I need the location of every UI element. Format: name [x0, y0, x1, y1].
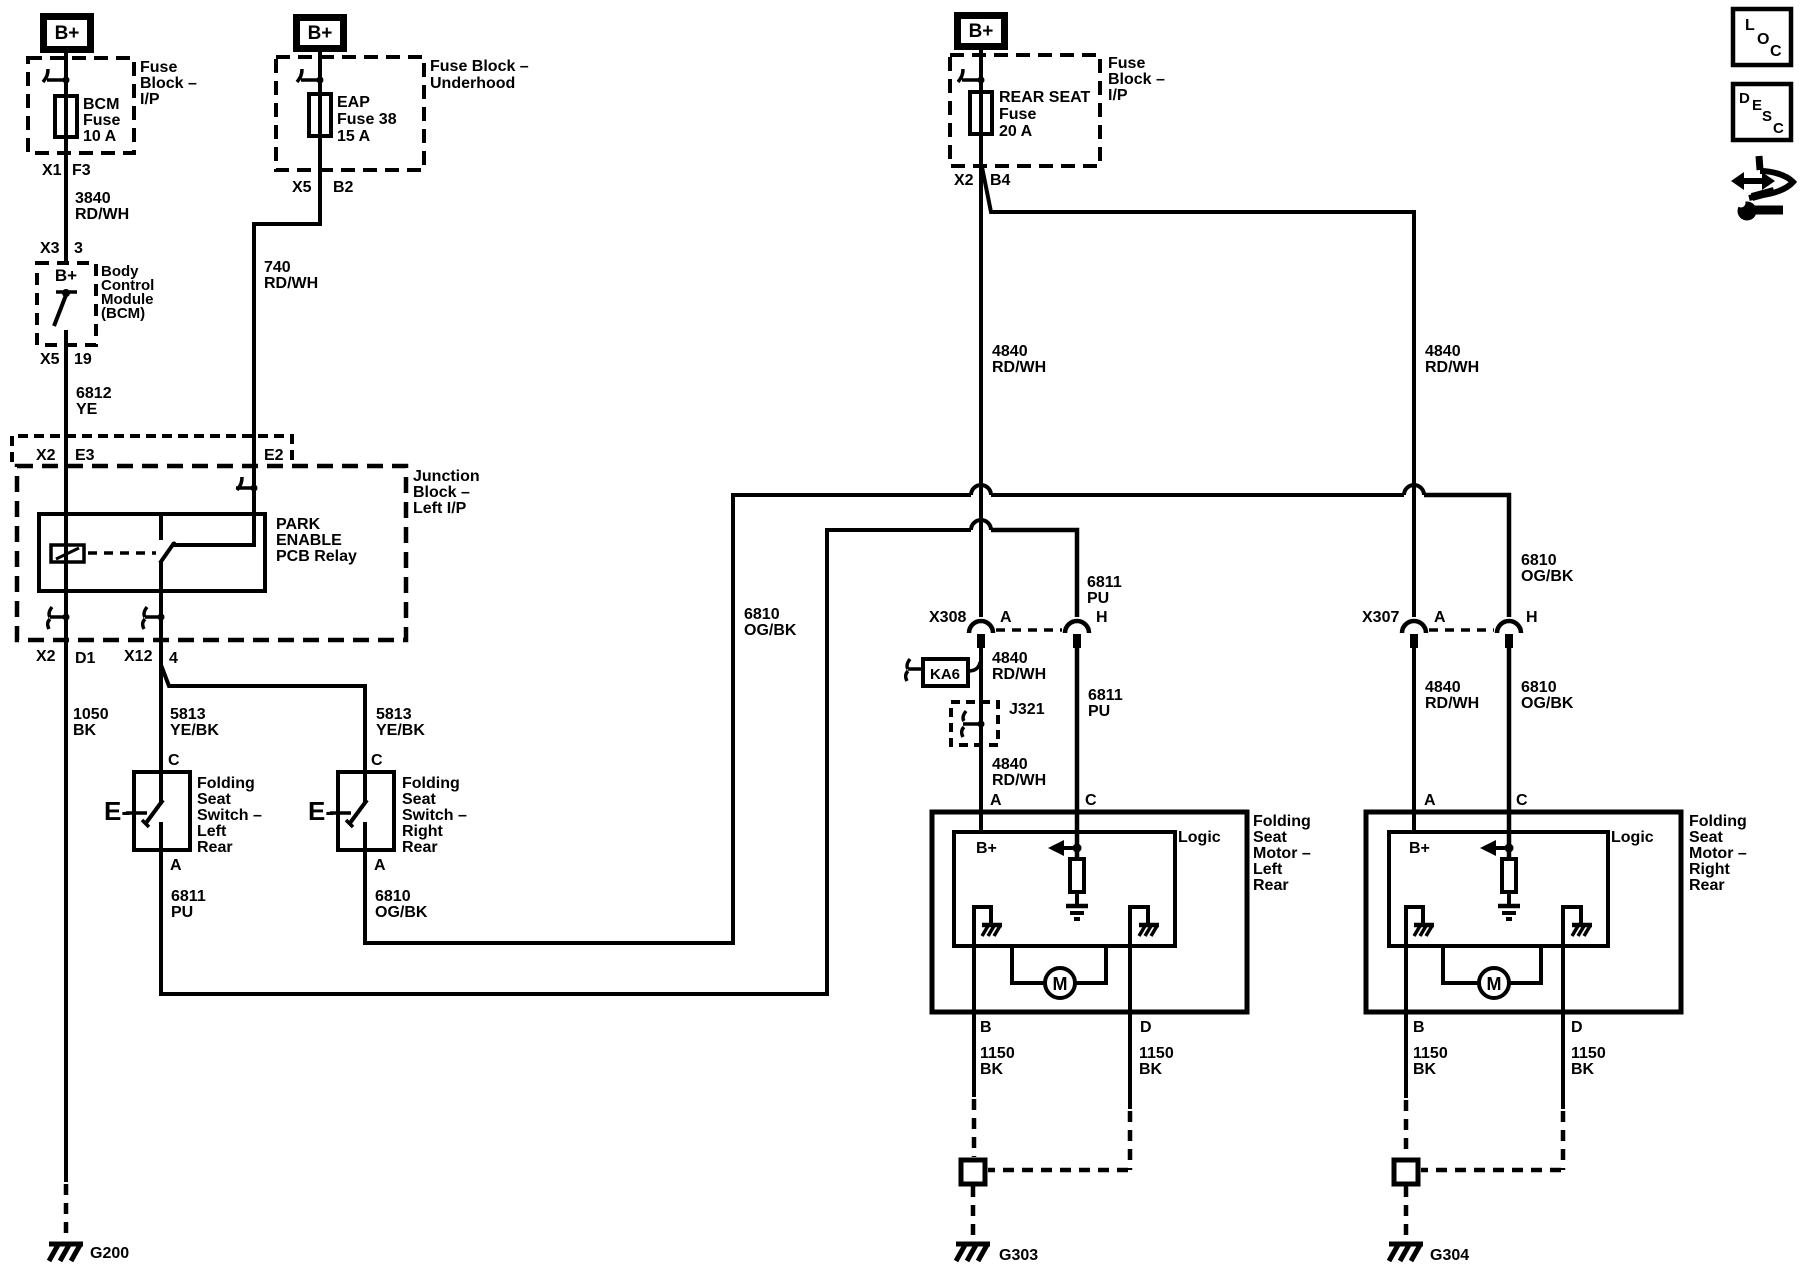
folding seat switch right rear blade [338, 800, 367, 827]
svg-text:Fuse Block –: Fuse Block – [430, 58, 529, 75]
resistor (right logic) [1502, 859, 1516, 892]
wire 6812 YE / 1050 BK from BCM down to G200 [64, 330, 68, 1182]
svg-text:I/P: I/P [1108, 87, 1128, 104]
svg-text:EAP: EAP [337, 94, 370, 111]
ground G303 [956, 1244, 990, 1261]
pin label X5 B2 [292, 179, 354, 196]
fuse EAP Fuse 38 15A [309, 94, 331, 136]
label Fuse Block - Underhood [430, 58, 529, 92]
svg-text:6810: 6810 [744, 606, 780, 623]
svg-text:L: L [1745, 17, 1755, 34]
svg-text:Rear: Rear [1689, 877, 1725, 894]
svg-text:G304: G304 [1430, 1247, 1469, 1264]
svg-text:5813: 5813 [376, 706, 412, 723]
svg-text:X1: X1 [42, 162, 62, 179]
svg-text:X5: X5 [292, 179, 312, 196]
dashed link coil to relay contact [88, 551, 156, 555]
svg-text:Seat: Seat [402, 791, 436, 808]
svg-text:Block –: Block – [1108, 71, 1165, 88]
svg-text:6810: 6810 [375, 888, 411, 905]
labels X308 A H [929, 609, 1108, 626]
svg-text:X307: X307 [1362, 609, 1399, 626]
svg-text:1150: 1150 [1413, 1045, 1448, 1062]
svg-text:C: C [1770, 43, 1782, 60]
wire 4840 RD/WH branch to right seat motor [982, 167, 1414, 617]
fuse REAR SEAT Fuse 20A [970, 92, 992, 134]
svg-text:S: S [1762, 108, 1772, 125]
pin labels X2 D1 X12 4 [36, 648, 178, 667]
splice (left motors ground) [961, 1160, 985, 1184]
svg-text:X2: X2 [36, 447, 56, 464]
ground G200 [49, 1244, 83, 1261]
dashed ground wire right motor B to splice [1404, 1100, 1409, 1157]
label PARK ENABLE PCB Relay [276, 516, 357, 565]
svg-text:6811: 6811 [1088, 687, 1123, 704]
wire resistor to signal ground (left logic) [1075, 892, 1079, 904]
connector clip on relay output wire at junction block bottom [143, 607, 165, 629]
connector clip at rear seat fuse block input [958, 69, 985, 84]
svg-text:6812: 6812 [76, 385, 112, 402]
signal ground (left logic) [1066, 906, 1088, 919]
fusible link KA6 [906, 659, 980, 686]
wire label 1150 BK (right motor D) [1571, 1045, 1606, 1078]
svg-text:(BCM): (BCM) [101, 305, 145, 322]
wire 4840 RD/WH below X307 to right motor A [1412, 646, 1416, 832]
svg-text:H: H [1096, 609, 1108, 626]
wire label 6810 OG/BK (above right motor C) [1521, 679, 1574, 712]
svg-text:X2: X2 [954, 172, 974, 189]
wire 5813 YE/BK branch to right folding seat switch [161, 665, 365, 802]
svg-text:Right: Right [1689, 861, 1731, 878]
wire label 6811 PU (above X308 H) [1087, 574, 1122, 607]
fuse block I/P dashed box [28, 58, 134, 153]
svg-text:Rear: Rear [197, 839, 233, 856]
svg-text:BK: BK [73, 722, 97, 739]
svg-text:BK: BK [1139, 1061, 1163, 1078]
dashed ground wire left motor D to splice [988, 1111, 1130, 1170]
connector X308 terminal A [969, 621, 993, 648]
svg-text:4840: 4840 [1425, 679, 1461, 696]
svg-text:19: 19 [74, 351, 92, 368]
svg-text:F3: F3 [72, 162, 91, 179]
svg-text:M: M [1487, 974, 1502, 994]
svg-text:4840: 4840 [992, 756, 1028, 773]
svg-text:Folding: Folding [402, 775, 460, 792]
wire 6810 OG/BK below X307 to right motor C [1507, 646, 1512, 859]
svg-text:740: 740 [264, 259, 291, 276]
folding seat switch right rear box [338, 772, 394, 850]
svg-text:6810: 6810 [1521, 552, 1557, 569]
wire left motor D internal with chassis ground [1130, 907, 1159, 1109]
connector clip inside J321 [962, 711, 985, 737]
svg-text:M: M [1053, 974, 1068, 994]
svg-text:Folding: Folding [1689, 813, 1747, 830]
svg-text:X12: X12 [124, 648, 153, 665]
svg-text:OG/BK: OG/BK [1521, 568, 1574, 585]
svg-text:B+: B+ [1409, 840, 1430, 857]
svg-text:Seat: Seat [1253, 829, 1287, 846]
svg-text:Block –: Block – [140, 75, 197, 92]
svg-text:Block –: Block – [413, 484, 470, 501]
pin label X3 3 [40, 240, 83, 257]
svg-text:B+: B+ [55, 266, 77, 285]
terminal labels B D (left motor) [980, 1019, 1152, 1036]
svg-text:G200: G200 [90, 1245, 129, 1262]
svg-text:4840: 4840 [1425, 343, 1461, 360]
wire label 6811 PU (below left switch) [171, 888, 206, 921]
svg-text:Rear: Rear [1253, 877, 1289, 894]
terminal labels A C (left motor) [990, 792, 1097, 809]
svg-text:D: D [1140, 1019, 1152, 1036]
svg-text:Left: Left [1253, 861, 1283, 878]
svg-text:3: 3 [74, 240, 83, 257]
svg-text:15 A: 15 A [337, 128, 371, 145]
svg-text:PU: PU [1088, 703, 1110, 720]
svg-text:1150: 1150 [980, 1045, 1015, 1062]
DESC reference icon [1733, 84, 1791, 140]
svg-text:RD/WH: RD/WH [992, 666, 1046, 683]
logic box (left motor) [954, 832, 1175, 946]
label Folding Seat Motor - Right Rear [1689, 813, 1747, 894]
svg-text:A: A [990, 792, 1002, 809]
wire right motor B internal with chassis ground [1406, 907, 1434, 1098]
wire 6810 OG/BK from right switch to X307 H with hops [365, 485, 1509, 943]
svg-text:B+: B+ [308, 23, 333, 44]
wire label 1150 BK (left motor B) [980, 1045, 1015, 1078]
label BCM Fuse 10 A [83, 96, 120, 145]
wire label 5813 YE/BK (right) [376, 706, 425, 739]
svg-text:RD/WH: RD/WH [264, 275, 318, 292]
svg-text:A: A [170, 857, 182, 874]
fuse block I/P dashed box (rear seat fuse) [950, 55, 1100, 166]
svg-text:E3: E3 [75, 447, 95, 464]
svg-text:20 A: 20 A [999, 123, 1033, 140]
svg-text:Fuse: Fuse [1108, 55, 1145, 72]
svg-text:4: 4 [169, 650, 178, 667]
labels X307 A H [1362, 609, 1538, 626]
connector clip at fuse block underhood input [297, 69, 324, 84]
wire 740 RD/WH from EAP fuse to relay contact [173, 52, 320, 545]
dashed ground wire right motor D to splice [1421, 1111, 1563, 1170]
wire 3840 RD/WH from B+ through BCM Fuse to BCM [64, 53, 68, 265]
svg-text:BK: BK [1571, 1061, 1595, 1078]
svg-text:C: C [1085, 792, 1097, 809]
label Folding Seat Switch - Left Rear [197, 775, 262, 856]
svg-text:D1: D1 [75, 650, 96, 667]
logic box (right motor) [1389, 832, 1608, 946]
svg-text:RD/WH: RD/WH [1425, 695, 1479, 712]
svg-text:D: D [1739, 90, 1750, 107]
svg-text:RD/WH: RD/WH [75, 206, 129, 223]
svg-text:RD/WH: RD/WH [992, 359, 1046, 376]
motor M left rear [1012, 946, 1106, 998]
junction dot and arrow (right logic) [1480, 840, 1514, 856]
label REAR SEAT Fuse 20 A [999, 89, 1090, 140]
wire label 3840 RD/WH [75, 190, 129, 223]
pin labels X2 E3 E2 [36, 447, 284, 464]
folding seat switch left rear box [134, 772, 190, 850]
battery feed B+ (EAP fuse, underhood) [293, 14, 347, 52]
svg-text:OG/BK: OG/BK [1521, 695, 1574, 712]
wire label 740 RD/WH [264, 259, 318, 292]
svg-text:Left: Left [197, 823, 227, 840]
svg-text:1150: 1150 [1571, 1045, 1606, 1062]
svg-text:Right: Right [402, 823, 444, 840]
svg-text:Folding: Folding [197, 775, 255, 792]
svg-text:B+: B+ [976, 840, 997, 857]
svg-text:4840: 4840 [992, 650, 1028, 667]
svg-text:1150: 1150 [1139, 1045, 1174, 1062]
ground G304 [1389, 1244, 1423, 1261]
motor M right rear [1443, 946, 1541, 998]
wire 6811 PU from left switch to X308 H with hop [161, 520, 1077, 994]
dashed link E- to right switch [330, 811, 336, 815]
wire label 4840 RD/WH (right drop) [1425, 343, 1479, 376]
svg-text:E2: E2 [264, 447, 284, 464]
connector clip on 1050 BK wire at junction block bottom [48, 607, 70, 629]
svg-text:B4: B4 [990, 172, 1011, 189]
fuse BCM Fuse 10A [55, 96, 77, 137]
svg-text:A: A [374, 857, 386, 874]
wire label 1150 BK (right motor B) [1413, 1045, 1448, 1078]
label Folding Seat Switch - Right Rear [402, 775, 467, 856]
connector X307 terminal A [1402, 621, 1426, 648]
svg-text:E-: E- [308, 796, 334, 826]
wire label 4840 RD/WH (left drop) [992, 343, 1046, 376]
svg-text:B: B [1413, 1019, 1425, 1036]
junction dot and arrow (left logic) [1048, 840, 1082, 856]
svg-text:O: O [1757, 31, 1769, 48]
svg-text:3840: 3840 [75, 190, 111, 207]
svg-text:I/P: I/P [140, 91, 160, 108]
svg-text:C: C [168, 752, 180, 769]
junction block left I/P dashed box [17, 466, 406, 640]
svg-text:A: A [1424, 792, 1436, 809]
svg-text:Left I/P: Left I/P [413, 500, 467, 517]
battery feed B+ (left, BCM fuse) [40, 13, 94, 53]
label Folding Seat Motor - Left Rear [1253, 813, 1311, 894]
wire label 4840 RD/WH (above right motor A) [1425, 679, 1479, 712]
svg-text:KA6: KA6 [930, 666, 960, 683]
dashed wire splice to G304 [1404, 1186, 1409, 1242]
svg-text:PCB Relay: PCB Relay [276, 548, 357, 565]
folding seat switch left rear blade [134, 800, 163, 827]
wire 6811 PU below X308 to left motor C [1075, 646, 1080, 859]
wire 4840 RD/WH below X308 to left motor A [979, 646, 983, 832]
wire label 4840 RD/WH (above left motor A) [992, 756, 1046, 789]
svg-text:PU: PU [1087, 590, 1109, 607]
svg-text:B: B [980, 1019, 992, 1036]
svg-text:Fuse: Fuse [140, 59, 177, 76]
pin label X1 F3 [42, 162, 91, 179]
wire label 6811 PU (above left motor C) [1088, 687, 1123, 720]
connector clip on E2 wire inside junction block [236, 477, 258, 492]
svg-text:4840: 4840 [992, 343, 1028, 360]
wire label 5813 YE/BK (left) [170, 706, 219, 739]
wire resistor to signal ground (right logic) [1507, 892, 1511, 904]
svg-text:E-: E- [104, 796, 130, 826]
wire label 6810 OG/BK (riser) [744, 606, 797, 639]
svg-text:Seat: Seat [197, 791, 231, 808]
terminal labels B D (right motor) [1413, 1019, 1583, 1036]
svg-text:A: A [1434, 609, 1446, 626]
folding seat motor left rear box [932, 812, 1247, 1012]
svg-text:Fuse 38: Fuse 38 [337, 111, 397, 128]
label Junction Block - Left I/P [413, 468, 480, 517]
wire from relay blade down to X12 pin 4 and switches [159, 561, 163, 803]
dashed link X307 A-H [1429, 628, 1494, 632]
svg-text:1050: 1050 [73, 706, 109, 723]
wire left motor B internal with chassis ground [974, 907, 1002, 1097]
svg-text:Underhood: Underhood [430, 75, 515, 92]
svg-text:OG/BK: OG/BK [744, 622, 797, 639]
svg-text:Switch –: Switch – [402, 807, 467, 824]
svg-text:OG/BK: OG/BK [375, 904, 428, 921]
splice (right motors ground) [1394, 1160, 1418, 1184]
svg-text:H: H [1526, 609, 1538, 626]
wire label 1050 BK [73, 706, 109, 739]
label Body Control Module (BCM) [101, 263, 154, 322]
svg-text:RD/WH: RD/WH [992, 772, 1046, 789]
svg-text:PARK: PARK [276, 516, 321, 533]
svg-text:6811: 6811 [171, 888, 206, 905]
svg-text:ENABLE: ENABLE [276, 532, 342, 549]
svg-text:Fuse: Fuse [999, 106, 1036, 123]
svg-text:YE/BK: YE/BK [376, 722, 425, 739]
svg-text:X5: X5 [40, 351, 60, 368]
svg-text:J321: J321 [1009, 701, 1045, 718]
wire label 1150 BK (left motor D) [1139, 1045, 1174, 1078]
svg-text:C: C [1773, 120, 1784, 137]
BCM internal switch [54, 289, 77, 326]
wire label 6812 YE [76, 385, 112, 418]
label Fuse Block - I/P (rear seat) [1108, 55, 1165, 104]
svg-text:Logic: Logic [1178, 829, 1221, 846]
LOC reference icon [1733, 9, 1791, 65]
svg-text:6811: 6811 [1087, 574, 1122, 591]
resistor (left logic) [1070, 859, 1084, 892]
dashed ground wire left motor B to splice [972, 1099, 977, 1157]
svg-text:B+: B+ [969, 21, 994, 42]
pin label X5 19 [40, 351, 92, 368]
wire 4840 RD/WH main vertical to X308 A [979, 50, 983, 617]
svg-text:Folding: Folding [1253, 813, 1311, 830]
svg-text:X2: X2 [36, 648, 56, 665]
dashed link E- to left switch [126, 811, 132, 815]
connector X307 terminal H [1497, 621, 1521, 648]
svg-text:PU: PU [171, 904, 193, 921]
battery feed B+ (REAR SEAT fuse) [954, 12, 1008, 50]
PARK ENABLE PCB Relay box [39, 514, 265, 591]
label Fuse Block - I/P [140, 59, 197, 108]
relay contact fixed stub [159, 514, 163, 540]
folding seat motor right rear box [1366, 812, 1681, 1012]
svg-text:A: A [1000, 609, 1012, 626]
svg-text:REAR SEAT: REAR SEAT [999, 89, 1090, 106]
connector row X2 (E3 / E2) dashed [12, 436, 292, 462]
svg-text:Motor –: Motor – [1689, 845, 1747, 862]
schematic navigation icon (arrows and wrench) [1731, 156, 1793, 221]
svg-text:Motor –: Motor – [1253, 845, 1311, 862]
svg-text:BK: BK [1413, 1061, 1437, 1078]
svg-text:6810: 6810 [1521, 679, 1557, 696]
pin label X2 B4 [954, 172, 1011, 189]
label EAP Fuse 38 15 A [337, 94, 397, 145]
svg-text:B2: B2 [333, 179, 354, 196]
svg-text:Fuse: Fuse [83, 112, 120, 129]
dashed wire splice to G303 [971, 1186, 976, 1242]
svg-text:Logic: Logic [1611, 829, 1654, 846]
connector clip at fuse block I/P input [43, 69, 70, 84]
wire label 4840 RD/WH (at KA6) [992, 650, 1046, 683]
svg-text:X3: X3 [40, 240, 60, 257]
relay contact blade [160, 543, 174, 563]
wire label 6810 OG/BK (above X307 H) [1521, 552, 1574, 585]
svg-text:Seat: Seat [1689, 829, 1723, 846]
Body Control Module (BCM) dashed box [37, 263, 96, 345]
svg-text:YE/BK: YE/BK [170, 722, 219, 739]
svg-text:Switch –: Switch – [197, 807, 262, 824]
svg-text:10 A: 10 A [83, 128, 117, 145]
svg-text:5813: 5813 [170, 706, 206, 723]
svg-text:Junction: Junction [413, 468, 480, 485]
wire label 6810 OG/BK (below right switch) [375, 888, 428, 921]
svg-text:RD/WH: RD/WH [1425, 359, 1479, 376]
connector X308 terminal H [1065, 621, 1089, 648]
ground wire dashed to G200 [64, 1184, 69, 1240]
svg-text:G303: G303 [999, 1247, 1038, 1264]
svg-text:C: C [1516, 792, 1528, 809]
wire right motor D internal with chassis ground [1563, 907, 1592, 1109]
terminal labels A C (right motor) [1424, 792, 1528, 809]
signal ground (right logic) [1498, 906, 1520, 919]
svg-text:C: C [371, 752, 383, 769]
svg-text:BK: BK [980, 1061, 1004, 1078]
svg-text:X308: X308 [929, 609, 966, 626]
dashed link X308 A-H [996, 628, 1062, 632]
in-line connector J321 dashed box [951, 702, 998, 745]
svg-text:YE: YE [76, 401, 98, 418]
svg-text:Rear: Rear [402, 839, 438, 856]
svg-text:D: D [1571, 1019, 1583, 1036]
svg-text:B+: B+ [55, 23, 80, 44]
svg-text:BCM: BCM [83, 96, 119, 113]
fuse block underhood dashed box [276, 57, 424, 170]
svg-text:E: E [1752, 97, 1762, 114]
relay coil [51, 545, 84, 562]
